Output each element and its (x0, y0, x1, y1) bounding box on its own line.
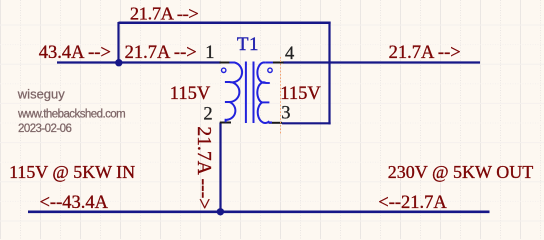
wire: main input horizontal to pin 1 (57, 61, 221, 63)
wire: top horizontal (input to pin 3 path) (119, 22, 331, 25)
svg-text:2: 2 (203, 104, 212, 124)
pin 2 stub (220, 122, 231, 124)
svg-text:<--21.7A: <--21.7A (378, 193, 447, 213)
primary winding cusp ticks (225, 81, 230, 83)
svg-text:21.7A -->: 21.7A --> (389, 43, 461, 63)
polarity dot pin 4 (268, 68, 272, 72)
pin 4 stub (272, 62, 284, 64)
orange dashed marker line (280, 57, 282, 135)
wire: right drop from top wire down to pin 3 wire (328, 22, 330, 125)
pin 1 stub (220, 62, 230, 64)
svg-text:3: 3 (281, 104, 290, 124)
svg-text:43.4A -->: 43.4A --> (39, 43, 111, 63)
svg-text:115V: 115V (170, 84, 211, 104)
wire: pin 3 horizontal (282, 122, 331, 124)
polarity dot pin 1 (222, 68, 226, 72)
svg-text:21.7A -->: 21.7A --> (130, 3, 199, 23)
wire: bottom return rail (28, 211, 490, 214)
junction: bottom node (217, 208, 224, 215)
junction: input node (115, 59, 122, 66)
core line 2 (253, 62, 255, 124)
svg-text:T1: T1 (237, 34, 259, 55)
secondary winding (pins 4-3) (257, 63, 268, 123)
svg-text:230V @ 5KW OUT: 230V @ 5KW OUT (388, 162, 533, 182)
winding bottom lead right (269, 122, 273, 124)
svg-text:2023-02-06: 2023-02-06 (18, 123, 71, 135)
svg-text:115V: 115V (280, 84, 321, 104)
svg-text:21.7A -->: 21.7A --> (125, 43, 197, 63)
winding top lead left (265, 62, 273, 64)
wire: left riser from junction up to top wire (117, 22, 119, 63)
wire: pin 2 vertical down to bottom rail (219, 123, 221, 213)
svg-text:4: 4 (285, 44, 294, 64)
svg-text:115V @ 5KW IN: 115V @ 5KW IN (9, 162, 135, 182)
svg-text:wiseguy: wiseguy (17, 86, 65, 101)
core line 1 (245, 62, 247, 124)
pin 3 stub (269, 122, 283, 124)
svg-text:www.thebackshed.com: www.thebackshed.com (17, 109, 125, 121)
primary winding (pins 1-2) (226, 63, 242, 123)
svg-text:21.7A --->: 21.7A ---> (193, 126, 214, 209)
transformer T1 (170, 34, 322, 125)
svg-text:<--43.4A: <--43.4A (40, 193, 109, 213)
wire: pin 4 output horizontal (283, 61, 480, 63)
secondary winding cusp ticks (265, 82, 270, 84)
svg-text:1: 1 (205, 43, 214, 63)
